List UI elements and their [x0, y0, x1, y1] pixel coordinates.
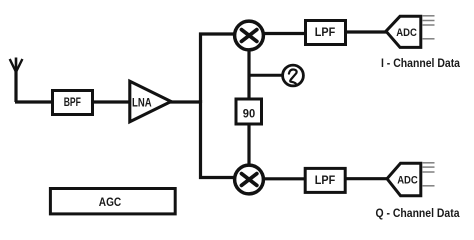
svg-text:LPF: LPF	[315, 173, 335, 187]
wire mixer M1 to LPF1	[258, 32, 307, 35]
amplifier LNA	[130, 81, 171, 122]
svg-text:LPF: LPF	[315, 25, 335, 39]
ADC2	[387, 163, 421, 195]
mixer M2	[235, 165, 264, 194]
svg-text:BPF: BPF	[64, 95, 81, 109]
wire LPF2 to ADC2	[345, 177, 389, 180]
ADC1 output bus	[422, 16, 435, 39]
wire LPF1 to ADC1	[345, 30, 388, 33]
svg-text:Q - Channel Data: Q - Channel Data	[376, 206, 460, 220]
svg-text:LNA: LNA	[132, 96, 152, 110]
ADC1	[386, 16, 421, 47]
wire LNA to splitter node	[170, 100, 202, 103]
wire mixer M2 to LPF2	[258, 177, 307, 180]
oscillator LO	[283, 65, 304, 86]
svg-text:ADC: ADC	[397, 175, 418, 187]
svg-text:90: 90	[243, 106, 256, 120]
ADC2 output bus	[422, 163, 435, 186]
wire phase-shifter to mixer M2	[247, 123, 250, 168]
wire antenna to BPF	[15, 100, 54, 103]
LPF2 box	[305, 168, 345, 192]
phase shifter 90	[236, 99, 262, 124]
wire mixer M1 to phase-shifter (LO node)	[247, 45, 250, 101]
antenna	[10, 58, 23, 103]
svg-text:ADC: ADC	[396, 27, 417, 39]
LPF1 box	[306, 21, 346, 45]
wire LO branch to oscillator	[248, 74, 285, 77]
wire BPF to LNA	[92, 100, 131, 103]
wire splitter to mixer M2	[201, 100, 241, 178]
mixer M1	[235, 21, 264, 50]
AGC box	[50, 189, 175, 214]
svg-text:I - Channel Data: I - Channel Data	[381, 56, 460, 70]
wire splitter to mixer M1	[201, 34, 241, 103]
BPF box	[53, 91, 93, 115]
svg-text:AGC: AGC	[99, 195, 122, 209]
